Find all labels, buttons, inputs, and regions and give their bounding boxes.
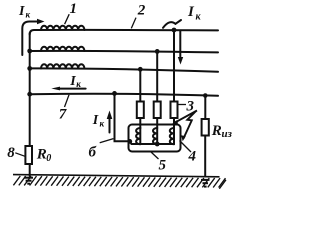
ground electrode symbol left (R0) — [24, 178, 33, 184]
pointer from label 5 — [151, 152, 159, 159]
junction dot line7-box wire — [112, 91, 117, 96]
curved hop arc top-right — [163, 22, 176, 28]
arrow Ik up (node 6 area) — [109, 118, 111, 133]
svg-text:R: R — [36, 146, 47, 162]
wire stub box edge to star bar — [130, 142, 132, 145]
winding 4c in box — [170, 128, 174, 144]
wire line 1 (phase A) — [30, 30, 218, 35]
arrowhead Ik down top-right — [178, 57, 183, 65]
pointer from label 4 — [180, 141, 192, 153]
svg-text:из: из — [222, 128, 233, 140]
svg-text:к: к — [76, 79, 81, 89]
arrowhead Ik top-left — [37, 19, 45, 24]
wire Riz to ground — [204, 136, 206, 177]
svg-text:I: I — [69, 74, 76, 89]
svg-text:5: 5 — [159, 158, 167, 174]
arc barb — [176, 20, 182, 24]
svg-text:8: 8 — [7, 145, 15, 161]
arrow Ik left on line 7 — [58, 88, 86, 90]
junction dot line7-Riz — [203, 93, 208, 98]
pointer from label 7 — [65, 95, 70, 107]
pointer tick label 8 — [15, 153, 25, 157]
pointer from label 1 — [65, 14, 70, 24]
inductor winding on line 3 — [41, 64, 84, 68]
inductor winding on line 1 — [41, 26, 84, 30]
wire drop line7 to Riz — [204, 96, 206, 120]
svg-text:7: 7 — [59, 106, 67, 122]
svg-text:I: I — [187, 4, 195, 20]
svg-text:к: к — [100, 119, 105, 129]
resistor R0 — [25, 146, 32, 164]
svg-text:0: 0 — [46, 153, 51, 164]
wire line 3 (phase C) — [30, 68, 218, 71]
wire R0 to ground — [29, 164, 31, 176]
winding 4b in box — [153, 128, 157, 144]
svg-text:1: 1 — [70, 1, 78, 17]
arrow Ik down (top-right) — [179, 31, 181, 59]
arrowhead Ik up node6 — [107, 111, 113, 120]
wire line 7 (neutral bus) — [30, 94, 218, 96]
inductor winding on line 2 — [41, 47, 84, 51]
wire resistor 3b to box — [156, 118, 158, 128]
lightning pointer of label 3 — [174, 111, 198, 139]
winding 4a in box — [136, 128, 140, 144]
svg-text:I: I — [92, 113, 99, 128]
svg-text:I: I — [18, 4, 25, 19]
star point bar — [132, 143, 175, 145]
pointer from label 6 — [100, 139, 114, 143]
junction dot line3-drop — [138, 67, 143, 72]
wire resistor 3a to box — [139, 118, 141, 128]
junction dot bus-line3 — [27, 66, 32, 71]
ground electrode symbol right (Riz) — [201, 180, 210, 187]
svg-text:3: 3 — [186, 98, 195, 114]
svg-text:R: R — [211, 123, 222, 139]
svg-text:б: б — [89, 145, 97, 161]
svg-text:4: 4 — [188, 149, 197, 165]
junction dot bus-line7 — [27, 92, 32, 97]
junction dot line1-drop — [172, 28, 177, 33]
wire drop from line3 to resistor 3a — [139, 69, 141, 101]
box 5 (tank) — [129, 125, 181, 152]
resistor 3b — [154, 102, 161, 119]
arrowhead Ik left line7 — [51, 87, 60, 91]
wire drop from line2 to resistor 3b — [156, 51, 158, 101]
pointer from label 2 — [131, 18, 136, 29]
resistor Riz — [202, 119, 209, 136]
resistor 3a — [137, 102, 144, 119]
junction dot line2-drop — [155, 49, 160, 54]
wire line 2 (phase B) — [30, 51, 218, 52]
pointer tick label 3 — [177, 104, 186, 106]
curved arrow Ik top-left — [22, 22, 38, 56]
svg-text:2: 2 — [137, 3, 146, 19]
wire drop from line1 to resistor 3c — [173, 30, 175, 102]
ground surface hatching — [13, 175, 219, 177]
resistor 3c — [171, 102, 178, 119]
wire left bus down — [29, 33, 31, 146]
wire resistor 3c to box — [173, 118, 175, 128]
junction dot star point — [155, 142, 160, 147]
svg-text:к: к — [26, 9, 31, 19]
junction dot box left edge — [127, 139, 132, 144]
wire from line7 down to box — [115, 93, 130, 141]
junction dot bus-line2 — [27, 49, 32, 54]
